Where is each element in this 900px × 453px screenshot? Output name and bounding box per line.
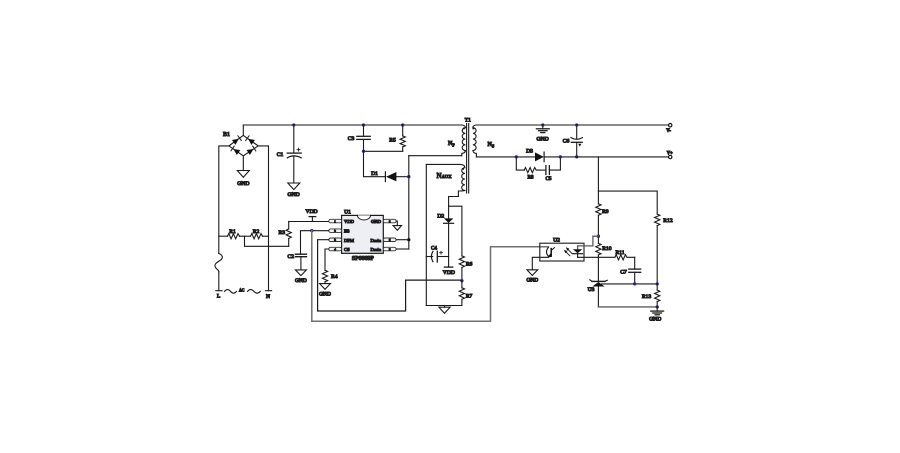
- wire: clamp bottom (C3 to R5): [364, 150, 403, 152]
- wire: LED anode from R9/R10 junction: [578, 236, 599, 249]
- wire: clamp to D1 anode: [364, 151, 386, 176]
- node: R6/R7 junction: [460, 279, 463, 282]
- ground symbol: bridge GND: [237, 156, 249, 178]
- svg-text:NAUX: NAUX: [437, 172, 453, 180]
- transformer T1 core: [467, 124, 469, 194]
- diode D2: [444, 218, 454, 223]
- svg-text:V+: V+: [667, 151, 673, 156]
- wire: D2 cathode down to VDD terminal: [448, 223, 450, 267]
- svg-text:Drain: Drain: [371, 238, 382, 243]
- polarity dot Naux: [462, 168, 464, 170]
- svg-text:CS: CS: [344, 247, 350, 252]
- wire: D1 cathode to switch node: [396, 176, 408, 178]
- svg-text:R12: R12: [663, 218, 673, 224]
- svg-text:R2: R2: [253, 229, 260, 235]
- svg-text:R1: R1: [229, 229, 236, 235]
- svg-text:GND: GND: [319, 292, 331, 298]
- wire: opto emitter to GND: [532, 257, 548, 270]
- node: R13 bottom junction: [656, 305, 659, 308]
- capacitor C2: [295, 254, 306, 270]
- svg-text:R7: R7: [466, 293, 473, 299]
- svg-text:R5: R5: [389, 137, 396, 143]
- ground symbol: C2 GND: [295, 270, 306, 276]
- ground symbol: U1 GND pin arrow: [393, 226, 401, 231]
- wire: aux node to R6: [449, 206, 462, 256]
- transformer T1 secondary winding Ns: [473, 125, 477, 157]
- resistor R5 (clamp): [400, 125, 405, 151]
- node: FB junction: [310, 229, 313, 232]
- resistor R8: [524, 168, 540, 173]
- wire: branch to R12: [598, 191, 657, 214]
- resistor R6: [459, 256, 464, 281]
- wire: AC N leg (bridge right vertex down to N terminal): [258, 146, 268, 291]
- diode D3: [535, 152, 544, 162]
- wire: VDD rail to U1 pin 1: [289, 221, 329, 223]
- svg-text:R4: R4: [331, 274, 338, 280]
- wire: D3 cathode to V+ terminal: [544, 156, 668, 158]
- node: R9/R10/LED junction: [597, 235, 600, 238]
- ground symbol: R4 GND: [320, 284, 331, 290]
- wire: FB feedback loop to optocoupler collector: [312, 231, 548, 322]
- wire: aux loop bottom: [426, 305, 462, 307]
- svg-text:L: L: [217, 294, 221, 300]
- svg-text:D2: D2: [437, 213, 444, 219]
- svg-text:R13: R13: [642, 294, 652, 300]
- svg-text:SP6669P: SP6669P: [352, 256, 375, 262]
- wire: Drain pin upper to switch node: [396, 239, 409, 241]
- resistor R10: [596, 236, 601, 257]
- node: C1 top junction: [292, 123, 295, 126]
- wire: snubber left drop: [516, 157, 524, 170]
- wire: V+ rail feedback branch down: [597, 157, 599, 204]
- node: C3 top junction: [362, 123, 365, 126]
- svg-text:GND: GND: [526, 278, 538, 284]
- ground symbol: C1 GND: [288, 183, 300, 190]
- terminal N: [265, 290, 271, 292]
- pin stub 2 (FB): [329, 229, 342, 233]
- node: R5 top junction: [401, 123, 404, 126]
- fuse squiggle on L leg: [215, 254, 222, 272]
- capacitor C1 (bulk electrolytic): [287, 125, 301, 183]
- opto light arrow 1: [566, 247, 572, 253]
- wire: secondary top rail (Ns top to V- terminal): [476, 124, 668, 126]
- opto light arrow 2: [564, 250, 570, 256]
- wire: R1/R2 tap down and right to R3 bottom: [245, 236, 289, 246]
- transformer T1 auxiliary winding Naux: [426, 164, 465, 196]
- node: secondary gnd tap: [541, 123, 544, 126]
- pin stub 4 (CS): [329, 247, 342, 251]
- pin stub 5 (Drain lower): [383, 247, 396, 251]
- svg-text:R11: R11: [615, 250, 624, 256]
- resistor R11: [615, 255, 635, 260]
- pin stub 6 (Drain upper): [383, 238, 396, 242]
- svg-text:B1: B1: [223, 132, 230, 138]
- pin stub 3 (DPM): [329, 238, 342, 242]
- svg-text:VDD: VDD: [344, 219, 355, 224]
- svg-text:GND: GND: [288, 192, 300, 198]
- svg-text:GND: GND: [371, 219, 382, 224]
- node: C7 bottom junction: [633, 282, 636, 285]
- AC source tilde 2: [248, 290, 261, 294]
- capacitor C4 (VDD storage): [426, 251, 448, 262]
- svg-text:GND: GND: [537, 137, 549, 143]
- svg-text:Drain: Drain: [371, 247, 382, 252]
- wire: aux winding to D2 anode: [448, 197, 450, 219]
- resistor R7: [459, 281, 464, 306]
- wire: Drain pin lower to switch node: [396, 248, 409, 250]
- svg-text:GND: GND: [237, 181, 249, 187]
- resistor R2: [245, 234, 269, 239]
- ground symbol: opto GND: [527, 270, 538, 276]
- ground symbol: aux loop GND arrow: [439, 306, 450, 314]
- wire: LED cathode line to R11: [578, 256, 615, 258]
- capacitor C7: [629, 257, 641, 284]
- pin stub 1 (VDD): [329, 219, 342, 223]
- wire: secondary bottom rail Ns to D3 anode: [476, 156, 535, 158]
- wire: aux loop left vertical (aux return to primary gnd rail): [425, 164, 427, 305]
- svg-text:GND: GND: [649, 316, 661, 322]
- wire: GND pin to ground: [396, 221, 397, 226]
- svg-text:R3: R3: [279, 230, 286, 236]
- wire: DPM pin loop to R6/R7 junction: [318, 240, 462, 311]
- power symbol VDD (primary): [309, 217, 316, 222]
- terminal V+: [669, 155, 672, 158]
- svg-text:AC: AC: [239, 289, 245, 293]
- IC U1 SP6669P body: [342, 215, 384, 253]
- wire: L leg lower: [218, 272, 220, 291]
- capacitor C3 (clamp): [357, 125, 370, 151]
- resistor R9: [596, 204, 601, 236]
- svg-text:D3: D3: [526, 149, 533, 155]
- svg-text:U1: U1: [344, 210, 351, 216]
- wire: Np bottom to switch node: [409, 155, 462, 157]
- svg-text:N: N: [266, 294, 270, 300]
- svg-text:VDD: VDD: [305, 209, 317, 215]
- terminal L: [216, 290, 222, 292]
- resistor R13: [655, 284, 660, 307]
- ground symbol: secondary GND (earth): [536, 125, 549, 133]
- svg-text:C6: C6: [563, 138, 570, 144]
- shunt regulator U3 (TL431): [590, 257, 608, 307]
- resistor R3: [286, 222, 291, 247]
- svg-text:C5: C5: [545, 176, 551, 182]
- svg-text:R8: R8: [527, 175, 533, 181]
- node: snubber right junction: [559, 155, 562, 158]
- svg-text:R10: R10: [602, 246, 612, 252]
- node: drain junction: [407, 238, 410, 241]
- opto LED (U2 input): [573, 249, 583, 257]
- wire: switch node vertical (Np bottom to Drain pins): [408, 156, 410, 249]
- svg-text:V-: V-: [666, 129, 671, 134]
- AC source tilde 1: [225, 290, 237, 294]
- wire: U3 reference to R12/R13 junction: [602, 283, 658, 285]
- svg-text:NS: NS: [488, 142, 495, 149]
- wire: U3 anode to R13 bottom: [598, 306, 657, 308]
- power symbol VDD (aux supply): [444, 266, 452, 268]
- svg-text:VDD: VDD: [443, 270, 455, 276]
- terminal V-: [669, 124, 672, 127]
- svg-text:R6: R6: [466, 261, 473, 267]
- svg-text:R9: R9: [602, 209, 609, 215]
- svg-text:U2: U2: [553, 238, 560, 244]
- resistor R4: [322, 270, 327, 283]
- node: C6 bottom junction: [575, 155, 578, 158]
- bridge rectifier B1: [229, 135, 258, 155]
- opto phototransistor (U2 output): [547, 247, 555, 258]
- svg-text:D1: D1: [371, 171, 378, 177]
- wire: primary top rail (B1 + to Np top): [243, 124, 462, 126]
- optocoupler U2 box: [540, 243, 584, 261]
- node: clamp bottom junction: [362, 150, 365, 153]
- node: C6 top junction: [575, 123, 578, 126]
- node: switch node junction at D1: [407, 175, 410, 178]
- wire: CS pin to R4: [325, 249, 329, 270]
- capacitor C5: [540, 157, 560, 175]
- resistor R12: [655, 214, 660, 284]
- diode D1: [385, 172, 396, 182]
- svg-text:C1: C1: [277, 152, 284, 158]
- transformer T1 primary winding Np: [462, 125, 466, 156]
- svg-text:FB: FB: [344, 229, 350, 234]
- wire: bridge top vertex to rail: [242, 125, 244, 135]
- svg-text:NP: NP: [448, 141, 455, 148]
- svg-text:U3: U3: [588, 287, 595, 293]
- pin stub 8 (GND): [383, 219, 396, 223]
- polarity dot Np: [463, 128, 465, 130]
- node: snubber left junction: [515, 155, 518, 158]
- resistor R1: [219, 234, 245, 239]
- svg-text:C2: C2: [288, 254, 295, 260]
- svg-text:GND: GND: [295, 278, 307, 284]
- node: R12/R13 junction: [656, 282, 659, 285]
- ground symbol: output GND (earth): [651, 307, 664, 315]
- svg-text:C3: C3: [348, 136, 355, 142]
- svg-text:T1: T1: [465, 118, 471, 124]
- wire: FB pin to C2 corner: [301, 231, 329, 255]
- polarity dot Ns: [473, 128, 475, 130]
- svg-text:DPM: DPM: [344, 238, 354, 243]
- capacitor C6 (output electrolytic): [571, 125, 582, 157]
- svg-text:C4: C4: [431, 245, 437, 251]
- svg-text:C7: C7: [620, 270, 627, 276]
- wire: AC L leg (bridge left vertex down to L terminal): [219, 146, 229, 254]
